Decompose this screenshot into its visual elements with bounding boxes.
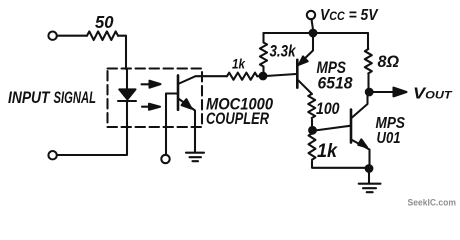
svg-text:100: 100	[316, 100, 340, 118]
svg-text:50: 50	[95, 12, 114, 32]
svg-text:VCC = 5V: VCC = 5V	[320, 7, 379, 24]
svg-text:INPUT: INPUT	[8, 88, 51, 107]
svg-text:U01: U01	[377, 130, 401, 147]
svg-text:8Ω: 8Ω	[378, 53, 400, 71]
svg-text:3.3k: 3.3k	[270, 42, 297, 61]
svg-text:VOUT: VOUT	[413, 86, 453, 103]
svg-text:1k: 1k	[232, 56, 246, 71]
svg-text:SIGNAL: SIGNAL	[54, 88, 97, 107]
svg-text:6518: 6518	[318, 73, 353, 92]
svg-text:COUPLER: COUPLER	[206, 110, 269, 128]
svg-text:SeekIC.com: SeekIC.com	[408, 197, 457, 208]
svg-text:1k: 1k	[317, 141, 338, 162]
